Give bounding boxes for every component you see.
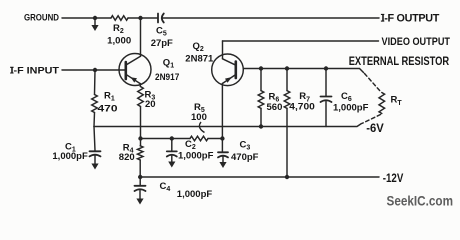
svg-text:-6V: -6V xyxy=(366,121,384,135)
svg-text:100: 100 xyxy=(191,112,207,123)
svg-text:I-F INPUT: I-F INPUT xyxy=(11,66,60,77)
svg-text:VIDEO OUTPUT: VIDEO OUTPUT xyxy=(382,36,451,48)
svg-text:470pF: 470pF xyxy=(231,152,259,163)
svg-text:1,000pF: 1,000pF xyxy=(178,151,214,162)
svg-text:20: 20 xyxy=(145,99,156,110)
svg-text:EXTERNAL RESISTOR: EXTERNAL RESISTOR xyxy=(349,54,450,68)
svg-text:SeekIC.com: SeekIC.com xyxy=(387,194,454,209)
svg-text:820: 820 xyxy=(119,152,135,163)
svg-text:560: 560 xyxy=(267,102,283,113)
svg-text:-12V: -12V xyxy=(383,171,404,185)
svg-text:470: 470 xyxy=(98,103,118,114)
svg-text:27pF: 27pF xyxy=(151,38,173,49)
svg-text:1,000pF: 1,000pF xyxy=(52,151,88,162)
svg-text:2N917: 2N917 xyxy=(155,72,179,83)
svg-text:2N871: 2N871 xyxy=(185,53,214,64)
svg-text:1,000: 1,000 xyxy=(107,36,131,47)
svg-text:I-F OUTPUT: I-F OUTPUT xyxy=(382,13,440,25)
svg-text:4,700: 4,700 xyxy=(289,102,315,113)
svg-text:1,000pF: 1,000pF xyxy=(177,189,213,200)
svg-text:1,000pF: 1,000pF xyxy=(333,103,369,114)
svg-text:GROUND: GROUND xyxy=(24,13,59,24)
